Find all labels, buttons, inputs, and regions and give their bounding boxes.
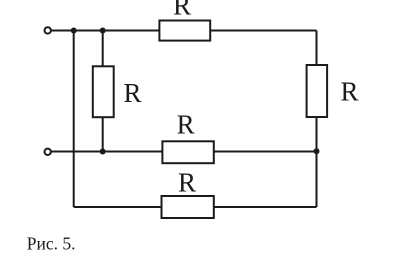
wire top horizontal [48, 30, 317, 32]
junction node (middle inner) [100, 149, 106, 155]
wire middle horizontal [48, 151, 317, 153]
resistor R (top) [159, 21, 210, 41]
svg-text:R: R [178, 168, 196, 198]
wire left inner vertical (branch with left resistor) [102, 31, 104, 152]
wire outer left vertical [73, 31, 75, 208]
terminal (bottom left, open circle) [45, 149, 51, 155]
resistor R (bottom) [162, 196, 214, 218]
wire bottom horizontal [74, 206, 317, 208]
resistor R (left vertical) [93, 66, 114, 117]
wire right vertical [316, 31, 318, 208]
junction node (top inner) [100, 28, 106, 34]
svg-text:R: R [173, 0, 191, 21]
svg-text:Рис. 5.: Рис. 5. [27, 233, 76, 253]
resistor R (middle) [162, 141, 213, 163]
svg-text:R: R [340, 76, 358, 106]
terminal (top left, open circle) [45, 27, 51, 33]
svg-text:R: R [177, 109, 195, 139]
junction node (top outer) [71, 28, 77, 34]
resistor R (right vertical) [307, 65, 328, 117]
junction node (middle right) [314, 148, 320, 154]
svg-text:R: R [123, 78, 141, 108]
